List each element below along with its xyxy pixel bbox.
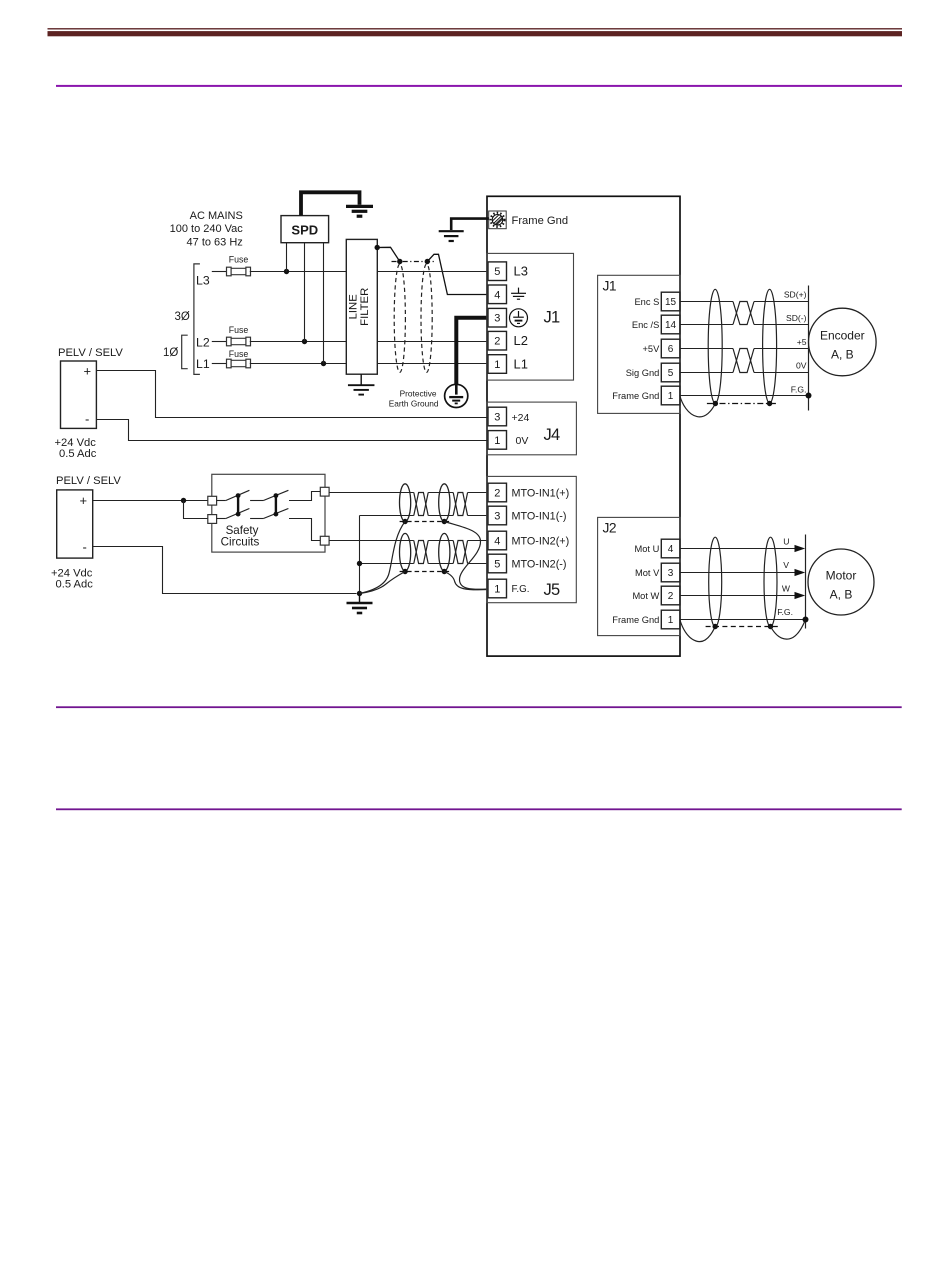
wire J5 pin 3 return (MTO-IN1-) xyxy=(360,515,489,517)
supply 2 rating label xyxy=(51,567,93,590)
svg-text:SPD: SPD xyxy=(291,222,318,237)
encoder circle xyxy=(809,308,877,376)
wire frame gnd to earth (thick) xyxy=(451,219,489,230)
wire L1 to fuse xyxy=(212,363,227,365)
svg-text:J5: J5 xyxy=(544,581,560,599)
J5 pin 2 net label xyxy=(512,487,570,499)
24V supply 1 box xyxy=(61,361,97,428)
wire safety to J5 pin 2 (MTO-IN1+) xyxy=(329,492,488,494)
svg-text:4: 4 xyxy=(494,289,500,301)
J5 pin 5 xyxy=(488,554,507,573)
J5 pin 4 net label xyxy=(512,535,570,547)
encoder pair twist SD xyxy=(733,302,754,325)
protective earth label xyxy=(389,388,439,408)
svg-text:J4: J4 xyxy=(544,426,560,444)
svg-text:100 to 240 Vac: 100 to 240 Vac xyxy=(170,223,244,235)
svg-text:J1: J1 xyxy=(603,279,617,294)
svg-text:+24: +24 xyxy=(512,412,530,424)
svg-text:+5: +5 xyxy=(797,337,807,347)
wire supply1 - to J4 pin 1 xyxy=(96,420,488,441)
twisted pair 1 twist 1 xyxy=(414,493,428,516)
J1 encoder pin 1 xyxy=(661,386,680,405)
protective earth ground symbol (circle) xyxy=(445,384,468,407)
J4 label xyxy=(544,426,560,444)
J1 encoder pin 6 xyxy=(661,339,680,358)
wire supply1 + to J4 pin 3 xyxy=(96,371,488,418)
J4 pin 1 net label 0V xyxy=(516,435,529,447)
shield ellipse 1 (mains cable) xyxy=(394,264,405,372)
svg-text:3: 3 xyxy=(494,313,500,325)
J1 pin 1 net label L1 xyxy=(514,356,528,371)
switch contact top pole xyxy=(217,490,321,500)
switch actuator link 1 xyxy=(236,493,241,516)
wire safety to J5 pin 4 (MTO-IN2+) xyxy=(329,540,488,542)
twisted pair 2 twist 1 xyxy=(414,541,428,564)
safety circuits label xyxy=(221,524,260,548)
motor shield tie (dashed) xyxy=(706,624,780,629)
return bus vertical wire xyxy=(359,516,361,594)
svg-text:MTO-IN2(+): MTO-IN2(+) xyxy=(512,535,570,547)
J1 pin 2 net label L2 xyxy=(514,333,528,348)
J5 pin 1 net label F.G. xyxy=(512,584,530,595)
svg-text:Frame Gnd: Frame Gnd xyxy=(612,615,659,625)
twisted pair 1 twist 2 xyxy=(453,493,467,516)
svg-text:1Ø: 1Ø xyxy=(163,347,178,359)
svg-text:-: - xyxy=(83,540,87,555)
svg-text:A, B: A, B xyxy=(830,588,853,602)
L2 phase label xyxy=(196,335,210,349)
svg-text:AC MAINS: AC MAINS xyxy=(190,210,243,222)
protective earth thick wire xyxy=(456,318,488,395)
svg-text:5: 5 xyxy=(494,266,500,278)
J1 pin 3 PE glyph xyxy=(510,309,528,327)
J5 pin 3 net label xyxy=(512,510,567,522)
encoder pair twist 5V xyxy=(733,349,754,373)
wire supply2 - to ground node xyxy=(93,547,357,594)
line filter box xyxy=(346,239,377,374)
motor F.G. wire xyxy=(680,619,806,621)
footer rule 2 (purple) xyxy=(56,808,902,810)
J1 pin 4 ground glyph xyxy=(511,288,526,300)
frame gnd label xyxy=(512,215,569,227)
J4 pin 1 xyxy=(488,431,507,450)
J2 pin 3 label xyxy=(635,568,660,578)
wire L2 to fuse xyxy=(212,341,227,343)
svg-text:J1: J1 xyxy=(544,309,560,327)
svg-text:4: 4 xyxy=(494,535,500,547)
24V supply 1 label PELV/SELV xyxy=(58,347,123,359)
3-phase bracket xyxy=(194,264,200,375)
24V supply 2 box xyxy=(57,490,93,558)
svg-text:Mot V: Mot V xyxy=(635,568,660,578)
J1 pin 5 net label L3 xyxy=(514,264,528,279)
encoder cable wires xyxy=(680,302,809,373)
shield tie line (dash-dot) xyxy=(392,259,435,264)
twisted pair 2 shield tie (dashed) xyxy=(400,569,450,574)
J5 label xyxy=(544,581,560,599)
encoder F.G. wire xyxy=(680,395,809,397)
header underline rule (purple) xyxy=(56,85,902,87)
junction L2/SPD xyxy=(302,339,307,344)
contact terminal left-top xyxy=(208,496,217,505)
wire supply2 + to safety circuits xyxy=(93,500,208,502)
motor drain squiggle left xyxy=(680,620,715,642)
J1 pin 3 xyxy=(488,308,507,327)
J1 pin 4 xyxy=(488,285,507,304)
svg-text:W: W xyxy=(782,584,791,594)
svg-text:PELV / SELV: PELV / SELV xyxy=(56,475,121,487)
svg-text:5: 5 xyxy=(668,368,674,379)
svg-text:5: 5 xyxy=(494,558,500,570)
motor cable shield ellipse 2 xyxy=(764,537,777,627)
svg-text:Earth Ground: Earth Ground xyxy=(389,398,439,408)
svg-text:14: 14 xyxy=(665,320,677,331)
J5 pin 3 xyxy=(488,506,507,525)
drive unit main box xyxy=(487,196,680,656)
fuse F3 (L1) xyxy=(227,359,251,368)
encoder drain squiggle xyxy=(680,396,716,417)
J1 pin 5 xyxy=(488,262,507,281)
connector J1 (mains) box xyxy=(487,253,574,380)
wire filter to J1 pin 5 (L3) xyxy=(377,271,488,273)
svg-text:3: 3 xyxy=(668,568,674,579)
svg-text:Protective: Protective xyxy=(400,388,437,398)
switch actuator link 2 xyxy=(274,493,279,516)
twisted pair 2 shield ellipse B xyxy=(439,533,450,571)
fuse F2 (L2) xyxy=(227,337,251,346)
junction MTO-IN2- xyxy=(357,561,362,566)
svg-text:MTO-IN2(-): MTO-IN2(-) xyxy=(512,558,567,570)
svg-text:1: 1 xyxy=(494,435,500,447)
svg-text:Enc /S: Enc /S xyxy=(632,320,659,330)
svg-text:1: 1 xyxy=(494,583,500,595)
J1 encoder pin 14 xyxy=(661,315,680,334)
J1 label (mains connector) xyxy=(544,309,560,327)
AC mains source label xyxy=(170,210,244,248)
supply 2 plus terminal xyxy=(80,493,88,508)
twisted pair 1 shield ellipse B xyxy=(439,484,450,522)
svg-text:0.5 Adc: 0.5 Adc xyxy=(59,448,97,460)
svg-text:Motor: Motor xyxy=(826,569,857,583)
motor circle xyxy=(808,549,874,615)
switch contact bottom pole xyxy=(217,509,321,541)
svg-text:A, B: A, B xyxy=(831,348,854,362)
twisted pair 1 shield ellipse A xyxy=(400,484,411,522)
supply 1 rating label xyxy=(55,437,97,460)
shield drain wire from filter xyxy=(375,245,400,262)
J1 encoder pin 5 xyxy=(661,363,680,382)
svg-text:L1: L1 xyxy=(196,357,210,371)
J1 encoder pin 15 label xyxy=(634,297,659,307)
junction L1/SPD xyxy=(321,361,326,366)
contact terminal right-top xyxy=(320,487,329,496)
junction L3/SPD xyxy=(284,269,289,274)
svg-text:1: 1 xyxy=(668,391,674,402)
wire L3 to fuse xyxy=(212,271,227,273)
J2 pin 4 label xyxy=(635,544,660,554)
svg-text:0V: 0V xyxy=(796,361,807,371)
ground symbol at frame gnd xyxy=(439,231,464,241)
supply 1 minus terminal xyxy=(85,411,89,426)
twisted pair 2 shield ellipse A xyxy=(400,533,411,571)
J5 pin 5 net label xyxy=(512,558,567,570)
L3 phase label xyxy=(196,274,210,288)
contact terminal left-bottom xyxy=(208,515,217,524)
frame gnd chassis symbol xyxy=(489,211,507,229)
J1 encoder pin 15 xyxy=(661,292,680,311)
wire fuse to line filter (L1) xyxy=(250,363,346,365)
connector J2 (motor) box xyxy=(598,517,680,635)
ground symbol at line filter xyxy=(348,374,375,394)
supply 2 minus terminal xyxy=(83,540,87,555)
svg-text:Encoder: Encoder xyxy=(820,329,865,343)
svg-text:SD(-): SD(-) xyxy=(786,313,807,323)
svg-text:15: 15 xyxy=(665,297,677,308)
svg-text:U: U xyxy=(783,536,789,546)
wire filter to J1 pin 1 (L1) xyxy=(377,363,488,365)
J4 pin 3 xyxy=(488,407,507,426)
SPD leg wires xyxy=(287,243,324,364)
drain curve pair2-right to F.G. pin xyxy=(444,572,488,590)
svg-text:Fuse: Fuse xyxy=(229,254,249,264)
motor cable shield ellipse 1 xyxy=(709,537,722,627)
svg-text:3: 3 xyxy=(494,411,500,423)
svg-text:6: 6 xyxy=(668,344,674,355)
svg-text:Frame Gnd: Frame Gnd xyxy=(512,215,569,227)
twisted pair 2 twist 2 xyxy=(453,541,467,564)
svg-text:2: 2 xyxy=(494,336,500,348)
wire filter to J1 pin 2 (L2) xyxy=(377,341,488,343)
24V supply 2 label PELV/SELV xyxy=(56,475,121,487)
ground symbol (safety 0V) xyxy=(347,594,373,614)
encoder shield tie (dash-dot) xyxy=(707,401,778,406)
svg-text:Mot U: Mot U xyxy=(635,544,660,554)
svg-text:+: + xyxy=(80,493,88,508)
svg-text:Circuits: Circuits xyxy=(221,536,260,549)
surge protector SPD box xyxy=(281,216,329,243)
svg-text:-: - xyxy=(85,411,89,426)
svg-text:1: 1 xyxy=(668,615,674,626)
branch wire to lower safety contact xyxy=(184,501,208,519)
svg-text:1: 1 xyxy=(494,359,500,371)
encoder cable shield ellipse 1 xyxy=(708,289,722,403)
J1 encoder pin 6 label xyxy=(642,344,660,354)
J1 encoder label xyxy=(603,279,617,294)
L1 phase label xyxy=(196,357,210,371)
J2 pin 1 label xyxy=(612,615,659,625)
J4 pin 3 net label +24 xyxy=(512,412,530,424)
motor phase labels xyxy=(777,536,793,617)
drain curve pair1-right to F.G. pin xyxy=(444,522,488,590)
svg-text:Fuse: Fuse xyxy=(229,349,249,359)
footer rule 1 (purple) xyxy=(56,706,902,708)
J2 pin 2 label xyxy=(632,591,659,601)
svg-text:3: 3 xyxy=(494,510,500,522)
svg-text:F.G.: F.G. xyxy=(791,384,807,394)
drain wire to pin 4 xyxy=(427,254,488,294)
motor bus F.G. junction xyxy=(803,617,809,623)
encoder signal labels xyxy=(784,290,807,395)
wire fuse to line filter (L3) xyxy=(250,271,346,273)
shield ellipse 2 (mains cable) xyxy=(421,264,432,372)
top page border thick-thin rule (dark red) xyxy=(48,28,903,36)
J1 encoder pin 14 label xyxy=(632,320,659,330)
contact terminal right-bottom xyxy=(320,536,329,545)
ground symbol at SPD xyxy=(346,206,373,216)
J5 pin 1 xyxy=(488,579,507,598)
1-phase label xyxy=(163,347,178,359)
svg-text:2: 2 xyxy=(494,487,500,499)
J2 pin 1 xyxy=(661,610,680,629)
fuse F2 label xyxy=(229,325,249,335)
J1 pin 1 xyxy=(488,355,507,374)
J1 pin 2 xyxy=(488,331,507,350)
svg-text:47 to 63 Hz: 47 to 63 Hz xyxy=(187,236,243,248)
1-phase bracket xyxy=(182,335,188,369)
J2 label xyxy=(603,521,617,536)
svg-text:L3: L3 xyxy=(514,264,528,279)
safety circuits box xyxy=(212,474,325,552)
svg-text:MTO-IN1(+): MTO-IN1(+) xyxy=(512,487,570,499)
svg-text:F.G.: F.G. xyxy=(777,607,793,617)
J2 pin 3 xyxy=(661,563,680,582)
svg-text:0.5 Adc: 0.5 Adc xyxy=(56,578,94,590)
fuse F1 (L3) xyxy=(227,267,251,276)
supply 1 plus terminal xyxy=(84,363,92,378)
svg-text:L1: L1 xyxy=(514,356,528,371)
fuse F3 label xyxy=(229,349,249,359)
motor signal bus xyxy=(805,535,807,629)
wire fuse to line filter (L2) xyxy=(250,341,346,343)
connector J1 (encoder) box xyxy=(598,275,680,413)
svg-text:L2: L2 xyxy=(514,333,528,348)
svg-text:Frame Gnd: Frame Gnd xyxy=(612,391,659,401)
J1 encoder pin 1 label xyxy=(612,391,659,401)
3-phase label xyxy=(175,311,190,323)
twisted pair 1 shield tie (dashed) xyxy=(400,519,450,524)
svg-text:MTO-IN1(-): MTO-IN1(-) xyxy=(512,510,567,522)
motor cable wires U V W xyxy=(680,545,805,599)
wire J5 pin 5 return (MTO-IN2-) xyxy=(360,563,489,565)
fuse F1 label xyxy=(229,254,249,264)
wire SPD to earth (thick) xyxy=(301,192,360,215)
connector J4 box xyxy=(487,402,576,455)
svg-text:+5V: +5V xyxy=(642,344,660,354)
svg-text:3Ø: 3Ø xyxy=(175,311,190,323)
svg-text:Fuse: Fuse xyxy=(229,325,249,335)
encoder signal bus xyxy=(808,286,810,411)
J2 pin 4 xyxy=(661,539,680,558)
svg-text:F.G.: F.G. xyxy=(512,584,530,595)
junction supply2 + xyxy=(181,498,186,503)
svg-text:SD(+): SD(+) xyxy=(784,290,807,300)
J2 pin 2 xyxy=(661,586,680,605)
svg-text:J2: J2 xyxy=(603,521,617,536)
svg-text:Mot W: Mot W xyxy=(632,591,659,601)
drain curve pair1-left to ground xyxy=(360,522,406,594)
svg-text:Sig Gnd: Sig Gnd xyxy=(626,368,660,378)
svg-text:PELV / SELV: PELV / SELV xyxy=(58,347,123,359)
motor drain squiggle right xyxy=(771,620,806,640)
svg-text:0V: 0V xyxy=(516,435,529,447)
svg-text:V: V xyxy=(783,560,789,570)
svg-text:L2: L2 xyxy=(196,335,210,349)
junction ground node xyxy=(357,591,362,596)
J5 pin 2 xyxy=(488,483,507,502)
connector J5 box xyxy=(487,476,576,602)
svg-text:2: 2 xyxy=(668,591,674,602)
svg-text:+: + xyxy=(84,363,92,378)
encoder cable shield ellipse 2 xyxy=(763,289,777,403)
svg-text:Enc S: Enc S xyxy=(634,297,659,307)
J1 encoder pin 5 label xyxy=(626,368,660,378)
svg-text:4: 4 xyxy=(668,544,674,555)
J5 pin 4 xyxy=(488,531,507,550)
encoder bus F.G. junction xyxy=(806,393,812,399)
svg-text:L3: L3 xyxy=(196,274,210,288)
drain curve pair2-left to ground xyxy=(360,572,406,594)
